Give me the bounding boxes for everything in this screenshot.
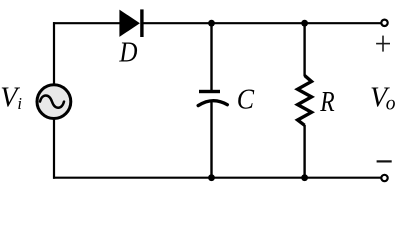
minus sign (377, 160, 392, 162)
plus sign (376, 36, 390, 52)
capacitor C top plate (199, 90, 220, 93)
wire resistor branch lower (303, 125, 305, 178)
diode D triangle (anode) (119, 10, 139, 37)
AC source sine wave (40, 95, 64, 107)
junction bottom capacitor node (208, 174, 215, 181)
resistor R zigzag (298, 76, 312, 126)
svg-text:Vo: Vo (370, 83, 396, 115)
wire top from source branch to diode (53, 22, 120, 24)
junction top resistor node (301, 20, 308, 27)
wire left branch vertical through source (53, 22, 55, 179)
output terminal plus (381, 20, 387, 26)
AC source Vi circle (37, 85, 71, 119)
wire resistor branch upper (303, 23, 305, 76)
wire top from diode to output terminal (143, 22, 382, 24)
capacitor C curved plate (198, 101, 227, 106)
output terminal minus (381, 175, 387, 181)
svg-text:D: D (119, 38, 138, 69)
svg-text:R: R (319, 87, 334, 118)
svg-text:Vi: Vi (0, 82, 22, 113)
diode D cathode bar (140, 9, 143, 37)
junction bottom resistor node (301, 174, 308, 181)
svg-text:C: C (237, 84, 255, 116)
wire bottom from source branch to output terminal (53, 177, 382, 179)
wire capacitor branch upper (210, 23, 212, 91)
junction top capacitor node (208, 20, 215, 27)
wire capacitor branch lower (210, 103, 212, 178)
